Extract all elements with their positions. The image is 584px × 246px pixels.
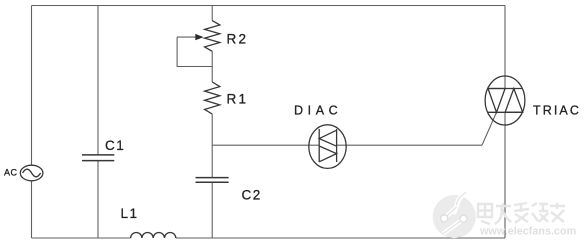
wire C1 branch top [97, 6, 99, 155]
potentiometer R2 [177, 21, 220, 67]
wire C1 branch bottom [97, 161, 99, 238]
wire gate diagonal [482, 112, 497, 145]
diac D1 [309, 125, 346, 169]
wire bottom right [176, 237, 505, 239]
AC source V1 [20, 165, 43, 181]
inductor L1 [131, 232, 176, 238]
resistor R1 [205, 82, 220, 114]
svg-text:AC: AC [4, 168, 18, 178]
wire triac anode bottom [504, 112, 506, 238]
triac Q1 [485, 76, 525, 125]
wire left top [31, 6, 33, 166]
wire bottom left [32, 237, 131, 239]
svg-text:DIAC: DIAC [294, 104, 342, 118]
svg-text:C1: C1 [105, 138, 125, 153]
wire node to diac [212, 144, 319, 146]
wire R2 branch top [211, 6, 213, 21]
capacitor C2 [196, 178, 229, 183]
wire R1-C2 [211, 114, 213, 178]
svg-text:www.elecfans.com: www.elecfans.com [479, 226, 576, 238]
svg-text:L1: L1 [121, 206, 139, 221]
svg-text:R1: R1 [227, 92, 249, 107]
svg-text:TRIAC: TRIAC [533, 104, 581, 118]
wire R2-R1 [211, 51, 213, 82]
watermark text chinese [478, 203, 565, 224]
svg-text:R2: R2 [227, 32, 249, 47]
svg-text:C2: C2 [242, 188, 262, 203]
capacitor C1 [82, 155, 114, 161]
wire left bottom [31, 181, 33, 238]
watermark logo [433, 193, 476, 239]
wire C2 bottom [211, 182, 213, 238]
wire triac anode top [504, 6, 506, 89]
wire top [32, 5, 506, 7]
wire diac to gate [337, 144, 482, 146]
